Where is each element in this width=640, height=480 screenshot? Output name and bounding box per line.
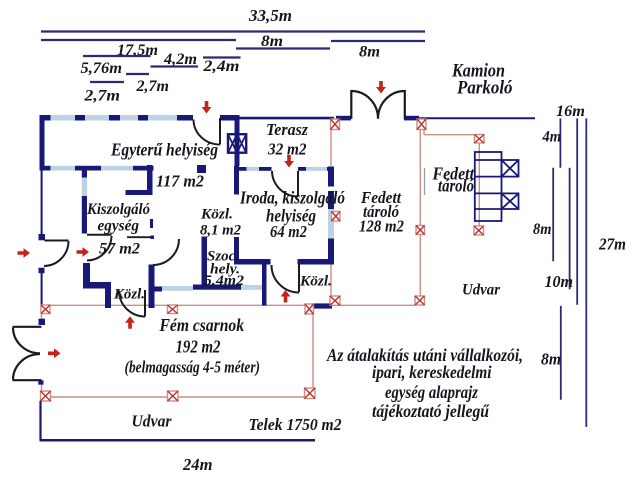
roof line right of entrance bbox=[419, 117, 535, 119]
svg-text:Iroda, kiszolgáló: Iroda, kiszolgáló bbox=[239, 188, 345, 208]
wall Iroda bottom right bbox=[298, 259, 335, 265]
svg-text:ipari, kereskedelmi: ipari, kereskedelmi bbox=[372, 362, 492, 382]
terasz bottom wall navy 1 bbox=[239, 167, 247, 171]
wall cap below door1 bbox=[39, 268, 45, 274]
dimension line 16m vertical bbox=[576, 118, 578, 304]
svg-text:8m: 8m bbox=[359, 44, 380, 61]
window interior x82 bbox=[82, 178, 87, 197]
svg-text:Parkoló: Parkoló bbox=[456, 78, 512, 99]
svg-text:8,1 m2: 8,1 m2 bbox=[200, 223, 241, 239]
dimension line 17,5m bbox=[41, 39, 236, 41]
dimension line 2,7m (middle) bbox=[126, 73, 149, 75]
red line fedett tarolo right bbox=[478, 143, 480, 226]
door service entrance 1 bbox=[44, 241, 69, 267]
red line fem csarnok left lower bbox=[41, 385, 43, 391]
svg-text:Udvar: Udvar bbox=[132, 412, 173, 431]
wall terasz top thin bbox=[240, 117, 335, 120]
arrow terasz door (down) bbox=[284, 155, 294, 168]
svg-text:64 m2: 64 m2 bbox=[270, 222, 307, 241]
window symbol double X on Egyteru right wall bbox=[228, 134, 246, 153]
wall Egyteru right bbox=[235, 117, 240, 166]
svg-text:tároló: tároló bbox=[438, 176, 474, 196]
wall jamb1 bottom corridor bbox=[105, 289, 111, 309]
dimension line 2,4m bbox=[203, 56, 241, 58]
svg-text:2,7m: 2,7m bbox=[135, 78, 169, 95]
dimension line 27m vertical bbox=[585, 118, 587, 427]
svg-text:egység alaprajz: egység alaprajz bbox=[385, 382, 478, 402]
dimension line 8m (second) bbox=[331, 40, 425, 42]
hinge block corridor door bbox=[151, 236, 155, 240]
wall Iroda left lower bbox=[234, 237, 239, 263]
door 2 (Kiszolgalo egyseg) bbox=[87, 235, 112, 261]
svg-text:33,5m: 33,5m bbox=[248, 6, 292, 25]
wall top-left corner pier bbox=[40, 115, 51, 121]
wall2 door jamb stub bbox=[197, 165, 206, 173]
arrow door1 (right) bbox=[18, 248, 31, 258]
dimension line 33,5m bbox=[41, 30, 425, 32]
svg-text:10m: 10m bbox=[545, 272, 574, 291]
svg-text:16m: 16m bbox=[556, 103, 585, 120]
column marker fedett SW bbox=[330, 296, 340, 305]
wall2 pier 3 bbox=[133, 166, 154, 171]
svg-text:tájékoztató jellegű: tájékoztató jellegű bbox=[372, 401, 490, 421]
wall3 window 2 bbox=[241, 285, 263, 290]
column marker fem SW bbox=[41, 391, 51, 401]
door main hall entrance arc bbox=[194, 118, 221, 145]
svg-text:24m: 24m bbox=[182, 455, 212, 474]
double door left (to yard) bbox=[13, 327, 42, 380]
wall left outer upper bbox=[40, 115, 45, 170]
dimension line 8m vertical upper bbox=[552, 168, 554, 261]
svg-text:8m: 8m bbox=[533, 221, 552, 238]
wall interior x82 upper bbox=[82, 169, 87, 178]
svg-text:Közl.: Közl. bbox=[200, 207, 233, 223]
wall Szoc left bbox=[202, 237, 208, 290]
red line fem csarnok right bbox=[312, 314, 314, 388]
svg-text:Terasz: Terasz bbox=[266, 120, 308, 139]
red line fedett tarolo left lower bbox=[330, 263, 332, 296]
grey guide line left of Fedett tarolo label bbox=[424, 168, 426, 195]
wall3 navy right of jamb2 bbox=[155, 287, 163, 292]
svg-text:egység: egység bbox=[98, 218, 140, 235]
dimension line 5,76m bbox=[83, 55, 151, 57]
svg-text:8m: 8m bbox=[541, 350, 561, 369]
wall left outer thin lower bbox=[41, 273, 43, 306]
svg-text:57 m2: 57 m2 bbox=[99, 241, 140, 258]
svg-text:Közl.: Közl. bbox=[113, 287, 145, 303]
wall L below door2 horizontal bbox=[83, 282, 111, 289]
wall3 navy under Szoc bbox=[193, 285, 241, 290]
svg-text:(belmagasság 4-5 méter): (belmagasság 4-5 méter) bbox=[125, 358, 261, 377]
wall Iroda right navy 2 bbox=[328, 191, 334, 209]
window band top wall bbox=[51, 115, 194, 121]
window band wall2 bbox=[51, 166, 134, 171]
wall top pier 4 bbox=[138, 115, 148, 121]
arrow entrance main hall (down) bbox=[202, 101, 212, 114]
double door main entrance bbox=[351, 90, 405, 119]
wall interior x82 lower bbox=[82, 196, 87, 234]
wall Iroda left upper bbox=[234, 166, 239, 195]
svg-text:2,4m: 2,4m bbox=[202, 58, 239, 75]
svg-text:Kiszolgáló: Kiszolgáló bbox=[86, 201, 150, 218]
column marker fedett SE corner bbox=[415, 296, 425, 305]
svg-text:Közl.: Közl. bbox=[299, 274, 332, 290]
wall Iroda right navy 3 bbox=[328, 239, 334, 263]
svg-text:5,4m2: 5,4m2 bbox=[204, 273, 245, 289]
wall corridor left lower / jamb2 bbox=[149, 265, 155, 309]
door Iroda to Kozl3 bbox=[272, 265, 300, 293]
terasz bottom window 2 bbox=[306, 167, 327, 171]
wall dash fem csarnok top right bbox=[312, 303, 332, 308]
svg-text:27m: 27m bbox=[598, 235, 626, 254]
arrow door2 (right) bbox=[77, 247, 90, 257]
column marker fem N mid bbox=[168, 305, 178, 314]
wall stub corridor left cap bbox=[126, 190, 153, 195]
column marker on Iroda right wall bbox=[332, 212, 341, 222]
svg-text:Fém csarnok: Fém csarnok bbox=[159, 315, 245, 335]
door terasz to Iroda bbox=[272, 171, 298, 197]
wall2 pier 2 bbox=[75, 166, 101, 171]
wall top pier 2 bbox=[75, 115, 85, 121]
dimension line 10m vertical bbox=[569, 168, 571, 289]
yard border left bbox=[39, 401, 41, 440]
wall cap double door2 bottom hinge bbox=[38, 380, 43, 384]
svg-text:32 m2: 32 m2 bbox=[267, 140, 306, 159]
wall Iroda right navy 1 bbox=[328, 167, 334, 187]
wall top pier 5 bbox=[177, 115, 193, 121]
svg-text:192 m2: 192 m2 bbox=[176, 337, 221, 357]
wall Kozl3 left bbox=[262, 265, 267, 306]
terasz bottom window 1 bbox=[247, 167, 260, 171]
wall Iroda bottom left bbox=[234, 259, 271, 265]
column marker terasz top left bbox=[331, 119, 340, 130]
red line fem csarnok left upper bbox=[41, 314, 43, 320]
svg-text:Telek 1750 m2: Telek 1750 m2 bbox=[249, 415, 342, 434]
svg-text:117 m2: 117 m2 bbox=[156, 172, 204, 191]
svg-text:128 m2: 128 m2 bbox=[359, 217, 404, 236]
door bottom corridor (Kozl) bbox=[119, 290, 145, 317]
red line fedett tarolo top bbox=[424, 134, 475, 136]
column marker fedett mid right bbox=[416, 226, 425, 235]
wall top pier 3 bbox=[109, 115, 120, 121]
arrow bottom corridor (up) bbox=[125, 316, 135, 329]
column marker fem S mid bbox=[168, 391, 179, 401]
dimension line 4m vertical bbox=[559, 118, 561, 167]
shelf rack structure bbox=[475, 152, 519, 221]
wall L below door2 vertical bbox=[83, 263, 90, 289]
column marker fem NW bbox=[41, 305, 50, 314]
yard border bottom bbox=[40, 439, 316, 442]
arrow Iroda door (up) bbox=[281, 290, 291, 303]
dimension line 8m (first) bbox=[236, 47, 330, 49]
column marker fem NE bbox=[305, 304, 314, 314]
wall pier left of double door bbox=[336, 116, 351, 121]
wall pier right of double door bbox=[404, 116, 419, 121]
wall left outer thin upper bbox=[41, 170, 43, 235]
red line fedett tarolo left upper bbox=[330, 127, 332, 166]
dimension line 8m vertical lower bbox=[560, 306, 562, 400]
wall cap double door2 top hinge bbox=[39, 319, 46, 325]
red line fem csarnok top / fedett bottom bbox=[51, 304, 416, 306]
red line fem csarnok bottom bbox=[51, 396, 304, 398]
red line fedett tarolo top link bbox=[423, 127, 425, 135]
door corridor (Kozl 8,1) bbox=[127, 237, 179, 265]
dimension line 4,2m bbox=[151, 65, 199, 67]
terasz bottom wall navy 3 bbox=[298, 167, 306, 171]
wall corridor left upper bbox=[147, 165, 153, 195]
column marker fedett SE bbox=[474, 226, 484, 235]
arrow double door left (right) bbox=[48, 348, 61, 358]
column marker terasz top right bbox=[417, 119, 426, 130]
wall tick corridor left bbox=[150, 219, 153, 228]
wall top right segment bbox=[220, 115, 240, 121]
svg-text:2,7m: 2,7m bbox=[83, 88, 120, 105]
svg-text:5,76m: 5,76m bbox=[81, 60, 123, 77]
wall cap door1 hinge bbox=[39, 234, 46, 240]
terasz bottom wall navy 2 bbox=[259, 167, 272, 171]
wall Iroda right window bbox=[328, 209, 334, 239]
wall3 window 1 bbox=[162, 286, 193, 291]
dimension line 2,7m (left) bbox=[90, 81, 124, 83]
terasz bottom wall navy 4 bbox=[327, 167, 334, 171]
arrow main entrance (down) bbox=[376, 81, 386, 94]
wall2 pier 1 bbox=[40, 166, 51, 171]
svg-text:Udvar: Udvar bbox=[462, 282, 501, 299]
svg-text:Egyterű helyiség: Egyterű helyiség bbox=[110, 140, 218, 160]
column marker fedett NE bbox=[475, 135, 485, 144]
red line fedett tarolo middle bbox=[419, 127, 421, 296]
column marker fem SE bbox=[305, 388, 316, 399]
svg-text:4m: 4m bbox=[542, 129, 561, 146]
